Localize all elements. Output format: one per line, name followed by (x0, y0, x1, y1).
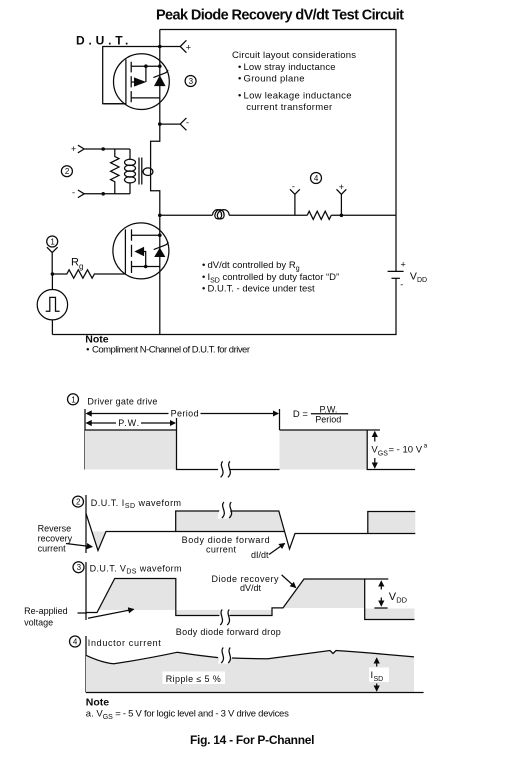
waveform 2 label circled 2 (73, 496, 182, 510)
svg-text:2: 2 (76, 498, 81, 507)
waveform 1 break symbol (216, 461, 231, 477)
waveform 2 reverse recovery notch fill (93, 532, 107, 551)
resistor Rg (51, 270, 126, 278)
Q2 channel dashes (131, 229, 133, 273)
dV/dt controlled text block (202, 260, 339, 295)
svg-text:• Compliment N-Channel of D.U.: • Compliment N-Channel of D.U.T. for dri… (86, 344, 250, 355)
svg-text:D =: D = (293, 409, 309, 420)
waveform 3 body diode forward drop label (176, 627, 281, 637)
Q2 drain line (132, 233, 162, 237)
Q2 body diode (154, 242, 169, 257)
svg-text:current: current (206, 544, 236, 554)
svg-text:2: 2 (65, 167, 70, 176)
svg-text:1: 1 (50, 238, 55, 247)
Q2 source line (132, 266, 160, 268)
outer circuit box wire (52, 30, 396, 335)
waveform 4 ripple label (163, 672, 226, 685)
Q1 source line (131, 64, 161, 82)
svg-text:• Low leakage inductance: • Low leakage inductance (238, 91, 352, 102)
node 1 circled with probe (47, 236, 58, 274)
svg-text:recovery: recovery (38, 534, 73, 544)
node 2 circled (61, 166, 72, 177)
waveform 2 axis (85, 495, 87, 553)
svg-text:Body diode forward: Body diode forward (182, 535, 270, 545)
waveform 2 dI/dt label (251, 544, 285, 561)
svg-text:• Low stray inductance: • Low stray inductance (238, 62, 336, 73)
waveform 3 break symbol (217, 610, 231, 626)
transistor Q2 driver circle (113, 223, 169, 279)
svg-text:• ISD controlled by duty facto: • ISD controlled by duty factor “D” (202, 272, 339, 285)
svg-text:Period: Period (315, 414, 341, 424)
waveform 3 band fill (176, 610, 272, 616)
svg-text:dI/dt: dI/dt (251, 550, 269, 560)
svg-text:current: current (38, 544, 67, 554)
wire transformer bottom (101, 192, 130, 196)
main vertical wire with transformer jog (151, 30, 160, 335)
transistor Q1 D.U.T. circle (113, 54, 169, 110)
waveform 1 duty factor fraction D = P.W./Period (293, 405, 348, 425)
waveform 3 axis (85, 562, 87, 620)
waveform 2 band 1 fill (176, 511, 285, 532)
svg-text:• D.U.T. - device under test: • D.U.T. - device under test (202, 284, 315, 295)
svg-text:Ripple ≤ 5 %: Ripple ≤ 5 % (166, 674, 221, 684)
wire inductor branch (158, 214, 396, 218)
Q1 source arrow (P-channel, points right) (131, 77, 146, 86)
terminal + of transformer drive (71, 144, 103, 154)
svg-text:dV/dt: dV/dt (240, 583, 262, 593)
svg-text:4: 4 (314, 174, 319, 183)
waveform 1 P.W. dimension (87, 418, 177, 430)
Note (circuit) (85, 334, 250, 356)
battery VDD (388, 260, 428, 290)
waveform 2 reverse recovery label (38, 524, 92, 554)
svg-text:+: + (401, 260, 406, 270)
svg-text:3: 3 (77, 563, 82, 572)
svg-text:DD: DD (396, 596, 407, 605)
svg-text:-: - (292, 181, 295, 191)
title (156, 8, 404, 24)
svg-text:Period: Period (171, 409, 199, 419)
transformer T1 core (139, 158, 142, 185)
waveform 1 pulse 2 (280, 430, 416, 470)
svg-text:Reverse: Reverse (38, 524, 72, 534)
resistor on inductor branch (307, 211, 331, 219)
waveform 1 axis (84, 409, 86, 470)
svg-text:R: R (71, 257, 79, 269)
D.U.T. label (76, 34, 132, 48)
Q1 body diode (153, 70, 168, 86)
svg-text:D.U.T.: D.U.T. (76, 34, 132, 48)
svg-text:• Ground plane: • Ground plane (238, 74, 305, 85)
svg-text:a. VGS = - 5 V for logic level: a. VGS = - 5 V for logic level and - 3 V… (86, 709, 289, 722)
waveform 4 ISD dimension (369, 658, 389, 691)
waveform 1 pulse 1 (85, 430, 280, 470)
node 3 circled (185, 76, 196, 87)
svg-text:-: - (72, 187, 75, 197)
waveform 3 pulse 1 fill (99, 579, 176, 611)
resistor R damping (111, 149, 119, 194)
waveform 3 pulse 2 fill (283, 579, 365, 608)
probe node + (top) (158, 40, 191, 52)
svg-text:1: 1 (71, 395, 76, 404)
waveform 2 break symbol (217, 502, 232, 519)
terminal - of transformer drive (72, 187, 103, 197)
svg-text:• dV/dt controlled by Rg: • dV/dt controlled by Rg (202, 260, 300, 273)
wire transformer top (101, 147, 130, 151)
svg-text:Body diode forward drop: Body diode forward drop (176, 627, 281, 637)
figure caption (190, 733, 315, 747)
probe node - (below D.U.T.) (158, 118, 189, 131)
node 4 circled (311, 173, 322, 184)
svg-text:Circuit layout considerations: Circuit layout considerations (232, 50, 356, 61)
waveform 3 diode recovery label (212, 574, 296, 593)
svg-text:SD: SD (374, 676, 384, 683)
svg-text:+: + (339, 182, 344, 192)
svg-text:GS: GS (378, 451, 388, 458)
Q2 source arrow (N-channel, points left) (134, 247, 147, 269)
svg-text:+: + (71, 144, 76, 154)
svg-text:4: 4 (73, 638, 78, 647)
svg-text:Peak Diode Recovery dV/dt Test: Peak Diode Recovery dV/dt Test Circuit (156, 8, 404, 24)
svg-text:Note: Note (86, 696, 109, 708)
waveform 4 bottom line (86, 692, 424, 694)
waveform 4 fill (86, 651, 414, 693)
waveform 3 VDD dimension (365, 579, 408, 608)
svg-text:= - 10 V: = - 10 V (389, 445, 423, 456)
inductor L (212, 210, 229, 219)
gate-source loop wire of D.U.T. (103, 47, 160, 104)
transformer T1 secondary loop (143, 168, 153, 176)
svg-text:-: - (400, 280, 403, 290)
svg-text:DD: DD (417, 277, 427, 284)
svg-text:Re-applied: Re-applied (24, 606, 68, 616)
waveform 3 re-applied voltage label (24, 606, 133, 628)
waveform 1 VGS dimension (371, 432, 427, 468)
svg-text:V: V (410, 271, 417, 283)
Q2 gate bar (124, 229, 126, 273)
waveform 3 trace (86, 579, 415, 620)
waveform 1 label circled 1 (68, 394, 158, 407)
circuit layout considerations text (232, 50, 356, 113)
waveform 4 label circled 4 (70, 636, 162, 648)
waveform 4 trace (86, 651, 414, 664)
svg-text:current transformer: current transformer (246, 102, 332, 113)
probe + on inductor branch (337, 182, 347, 217)
pulse generator source (37, 274, 67, 335)
svg-text:Driver gate drive: Driver gate drive (87, 397, 157, 407)
Q1 drain line (131, 97, 160, 99)
svg-text:a: a (424, 442, 428, 449)
waveform 2 band 2 fill (368, 512, 416, 534)
svg-text:-: - (186, 118, 189, 128)
Q1 channel dashes (130, 62, 132, 103)
svg-text:g: g (79, 262, 83, 271)
svg-text:3: 3 (189, 77, 194, 86)
svg-text:P.W.: P.W. (320, 405, 338, 415)
note waveforms (86, 696, 289, 721)
svg-text:+: + (186, 43, 191, 53)
waveform 2 body diode forward current label (182, 535, 270, 555)
transformer T1 primary coil (125, 149, 136, 194)
svg-text:Fig. 14 - For P-Channel: Fig. 14 - For P-Channel (190, 733, 315, 747)
svg-text:P.W.: P.W. (118, 418, 139, 428)
Q1 gate bar (104, 59, 126, 105)
waveform 4 break symbol (218, 648, 232, 664)
probe - on inductor branch (290, 181, 300, 215)
svg-text:Inductor current: Inductor current (88, 638, 161, 648)
waveform 2 trace (86, 511, 415, 551)
waveform 4 axis (85, 636, 87, 693)
waveform 3 band 2 fill (365, 609, 415, 620)
waveform 1 Period dimension (87, 409, 280, 430)
svg-text:voltage: voltage (24, 618, 53, 628)
resistor Rg label (71, 257, 83, 271)
waveform 3 label circled 3 (73, 562, 182, 576)
